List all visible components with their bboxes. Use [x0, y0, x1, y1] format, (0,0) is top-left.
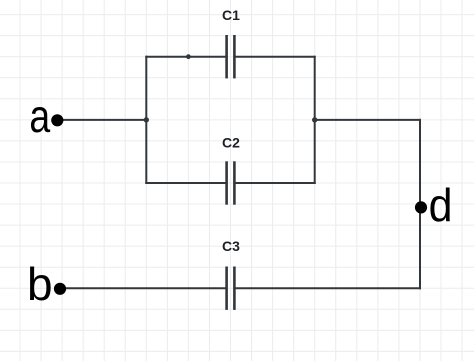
- wire C3 to d vertical: [234, 287, 420, 289]
- svg-text:C1: C1: [222, 7, 240, 23]
- wire d vertical: [419, 120, 421, 288]
- svg-text:d: d: [429, 179, 453, 231]
- junction dot node a branch: [144, 117, 149, 122]
- svg-text:C3: C3: [222, 238, 240, 254]
- wire a to left loop: [57, 119, 146, 121]
- svg-text:a: a: [29, 90, 50, 142]
- junction dot right loop branch: [312, 117, 317, 122]
- wire right loop vertical: [314, 57, 316, 183]
- junction dot top wire: [186, 54, 191, 59]
- wire top right segment: [234, 56, 314, 58]
- wire bottom right segment: [234, 182, 314, 184]
- svg-text:b: b: [27, 258, 53, 310]
- wire top left segment: [146, 56, 226, 58]
- svg-text:C2: C2: [222, 134, 240, 150]
- wire left loop vertical: [145, 57, 147, 183]
- node d: [415, 179, 453, 231]
- node a: [29, 90, 63, 142]
- capacitor C1: [222, 7, 240, 79]
- capacitor C3: [222, 238, 240, 310]
- wire right junction to d vertical: [315, 119, 420, 121]
- node b: [27, 258, 66, 310]
- wire b to C3: [60, 287, 227, 289]
- wire bottom left segment: [146, 182, 226, 184]
- capacitor C2: [222, 134, 240, 204]
